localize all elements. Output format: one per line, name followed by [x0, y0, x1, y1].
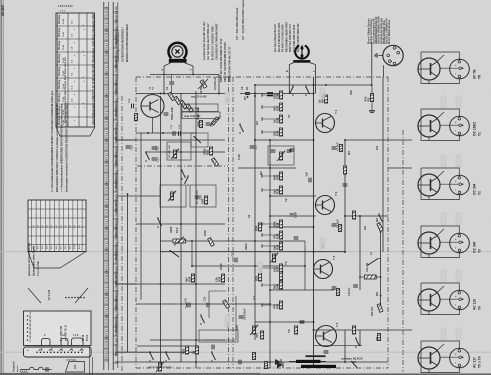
capacitor C25: [300, 321, 305, 323]
pinout U1 transistor symbol: [418, 58, 440, 80]
speaker LS1 terminal wires: [164, 63, 171, 66]
wire horizontal y168: [238, 167, 296, 169]
resistor R32: [273, 115, 283, 123]
resistor R35: [273, 186, 283, 194]
table A measurement table: [56, 13, 95, 127]
capacitor C34: [207, 303, 209, 308]
schematic dash-dot border bottom: [136, 367, 388, 369]
bias network box: [182, 104, 218, 112]
pinout U5 base view: [450, 290, 470, 310]
contact strip box: [24, 347, 92, 357]
left stub y140: [118, 139, 136, 141]
wire vertical x360: [359, 216, 361, 290]
dot row in bracket: [65, 297, 67, 299]
dash-dot rail x122: [121, 96, 123, 372]
switch K6a: [305, 85, 309, 96]
wire box bottom-left: [209, 290, 226, 292]
capacitor C47: [353, 285, 358, 287]
resistor R24: [254, 223, 261, 231]
pinout U5 stamp marks: [441, 270, 446, 282]
resistor R34: [273, 172, 283, 180]
capacitor C29: [332, 287, 337, 289]
inner dash-dot rail pair: [228, 77, 230, 368]
record head arrow: [301, 47, 303, 58]
pinout U6 wiring loop: [421, 341, 460, 373]
pinout U6 base view: [450, 348, 470, 368]
resistor R36: [273, 220, 283, 228]
battery bar mid: [306, 355, 326, 357]
capacitor C14: [179, 131, 181, 136]
DIN socket stub cap: [379, 54, 383, 56]
wire horizontal y140: [115, 139, 225, 141]
pinout U5 transistor symbol: [418, 289, 440, 311]
resistor R30: [273, 91, 283, 99]
box right of upper: [191, 133, 208, 147]
capacitor C30: [239, 360, 241, 365]
resistor R46: [352, 211, 355, 219]
capacitor C70: [46, 367, 48, 372]
resistor R10b: [211, 117, 219, 125]
battery B1 plate long: [296, 360, 321, 363]
capacitor C45: [245, 93, 250, 95]
resistor R61 horizontal: [364, 275, 376, 279]
fold line 2: [0, 351, 491, 353]
left stub y352: [118, 351, 136, 353]
resistor R60: [264, 362, 267, 369]
capacitor C44 dark: [267, 93, 273, 96]
wire horizontal y216: [270, 215, 316, 217]
bias network box 2: [182, 112, 220, 119]
wire horizontal y196: [270, 195, 316, 197]
bump G2: [61, 339, 68, 346]
wire horizontal y284: [115, 283, 225, 285]
resistor R38: [273, 242, 283, 250]
resistor R6: [174, 96, 181, 104]
pinout U4 transistor symbol: [418, 232, 440, 254]
switch K5a: [181, 169, 185, 180]
Gerausch ground: [20, 369, 28, 371]
wire main bus x313: [313, 77, 315, 368]
table A bracket: [56, 127, 95, 136]
capacitor C43: [332, 147, 337, 149]
wire x127.5 lower: [127, 194, 129, 352]
pinout U3 stamp marks: [441, 155, 446, 167]
wire y133: [136, 132, 196, 134]
switch K5b: [185, 175, 189, 186]
wire horizontal y330: [314, 329, 413, 331]
wire y74.4 speaker rail: [150, 73, 219, 75]
feedback box upper: [167, 142, 191, 160]
switch S3: [211, 351, 215, 362]
box left entry column: [27, 315, 28, 316]
vertical separators right of trapezoid: [89, 345, 91, 375]
wire vertical x345: [344, 140, 346, 252]
wire horizontal y322: [255, 321, 314, 323]
diode D1: [275, 359, 281, 365]
bump G1: [42, 339, 51, 346]
potentiometer P4: [158, 363, 161, 371]
resistor R62: [377, 304, 383, 313]
wire vertical x383: [382, 77, 384, 252]
potentiometer P5 wiper: [279, 152, 282, 160]
capacitor C5: [206, 123, 211, 125]
dash-dot rail x403: [402, 130, 404, 372]
resistor R33: [273, 128, 283, 136]
resistor R20: [215, 274, 225, 282]
switch K9: [355, 337, 359, 348]
transistor T3: [314, 260, 333, 279]
wire horizontal y224: [136, 223, 225, 225]
pinout U2 transistor symbol: [418, 115, 440, 137]
speaker LS1 magnet arc: [169, 43, 187, 59]
Gerausch circuit humps: [28, 367, 52, 369]
wire x305 segment: [304, 241, 306, 290]
junction dots: [160, 93, 162, 95]
resistor R40: [279, 272, 282, 280]
DIN wire to frame: [383, 65, 385, 77]
potentiometer P3: [252, 326, 255, 334]
record switch box: [199, 330, 238, 342]
wire vertical x181: [180, 93, 182, 362]
pinout U6 transistor symbol: [418, 347, 440, 369]
switch S1: [149, 351, 153, 362]
feedback box lower: [160, 185, 186, 207]
dash-dot y166 left: [137, 165, 228, 167]
resistor R41: [273, 281, 283, 289]
capacitor C22: [290, 214, 295, 216]
switch K2b on fold: [169, 250, 179, 257]
resistor R42: [273, 301, 283, 309]
resistor R50: [343, 166, 346, 174]
wire horizontal y340: [150, 339, 225, 341]
pinout U2 wiring loop: [421, 109, 460, 141]
potentiometer P6: [211, 158, 218, 166]
switch K6b: [290, 85, 294, 96]
resistor R5: [168, 92, 175, 100]
switch S2: [165, 351, 169, 362]
resistor R23: [208, 238, 215, 247]
wire vertical x371 from DIN: [371, 42, 373, 85]
resistor R58: [191, 346, 198, 354]
left stub y284: [118, 283, 136, 285]
switch K8 right: [367, 259, 380, 266]
DIN socket pins: [393, 47, 396, 50]
potentiometer P0: [173, 150, 176, 158]
wire vertical x255: [254, 85, 256, 340]
wire x380.6 segment: [380, 232, 382, 310]
transistor T2: [316, 196, 335, 215]
pinout U3 transistor symbol: [418, 174, 440, 196]
switch K10: [200, 314, 204, 325]
switch K1a: [145, 151, 149, 162]
trapezoid 102: [66, 362, 85, 373]
pinout U1 base view: [450, 59, 470, 79]
resistor R13: [339, 145, 342, 152]
battery wires: [289, 360, 296, 362]
left stub y196: [118, 195, 136, 197]
tone network box right: [268, 146, 294, 165]
battery B1 plate short: [301, 365, 336, 368]
resistor R31: [273, 103, 283, 111]
contact strip dots: [36, 351, 38, 353]
stamp marks: [320, 88, 325, 99]
wire vertical x270: [269, 140, 271, 368]
resistor R37: [273, 231, 283, 239]
capacitor C33: [188, 303, 190, 308]
dash-dot stub top left: [115, 139, 136, 141]
pinout U3 wiring loop: [421, 168, 460, 200]
schematic dash-dot border top: [136, 76, 388, 78]
record head TK magnet ring: [295, 46, 309, 59]
pinout U6 stamp marks: [441, 328, 446, 340]
scan bottom edge: [0, 373, 491, 375]
potentiometer R21 horizontal: [173, 237, 186, 246]
capacitor C3: [164, 113, 169, 115]
pinout U4 stamp marks: [441, 213, 446, 225]
capacitor C24: [309, 178, 311, 183]
table C taper: [28, 252, 86, 269]
switch K1b: [157, 217, 161, 228]
fold line 1: [0, 251, 491, 253]
record head bar: [293, 60, 310, 63]
capacitor C23: [294, 237, 299, 239]
switch K11: [239, 123, 243, 134]
diode D2 bottom: [277, 362, 283, 368]
switch K4 in box: [193, 136, 201, 143]
switch K7: [378, 213, 382, 224]
transistor T4: [316, 326, 337, 347]
wire x141: [140, 133, 142, 300]
transistor T7: [141, 95, 164, 118]
capacitor C41: [271, 150, 276, 152]
wire horizontal y227: [270, 226, 314, 228]
resistor R56: [223, 300, 230, 309]
schematic dash-dot border right: [387, 77, 389, 368]
capacitor C1: [132, 104, 134, 109]
schematic dash-dot border left: [135, 77, 137, 368]
callout bracket under table C: [28, 288, 41, 303]
resistor R7: [180, 100, 187, 108]
capacitor C28: [332, 224, 337, 226]
speaker LS1 magnet bar: [169, 59, 187, 63]
pinout U3 base view: [450, 175, 470, 195]
wire vertical x196: [195, 91, 197, 368]
pinout U5 wiring loop: [421, 283, 460, 315]
capacitor C15: [126, 146, 131, 148]
resistor R44: [294, 326, 297, 334]
capacitor C17: [235, 258, 237, 263]
speaker LS1 cone ring: [172, 46, 183, 57]
wire y241: [160, 240, 305, 242]
capacitor C2a: [169, 82, 174, 84]
contact strip bridges: [39, 350, 43, 351]
resistor R14: [338, 225, 341, 232]
capacitor C12: [152, 158, 157, 160]
wire horizontal y290: [270, 289, 334, 291]
wire x192 segment: [191, 241, 193, 266]
transistor T1: [316, 114, 335, 133]
pinout U2 stamp marks: [441, 96, 446, 108]
resistor R48: [377, 223, 383, 232]
strip B measurement rail: [103, 2, 105, 370]
capacitor C20: [290, 149, 295, 151]
capacitor C13: [173, 131, 175, 136]
capacitor C11: [152, 147, 157, 149]
resistor R17: [336, 289, 339, 296]
table C voltage table: [28, 200, 86, 252]
pinout U4 base view: [450, 233, 470, 253]
resistor R55: [252, 353, 255, 360]
wire horizontal y346: [137, 345, 199, 347]
resistor R15: [203, 147, 213, 155]
scan noise overlay: [0, 0, 1, 1]
bump G3: [72, 338, 84, 346]
resistor R57: [181, 346, 188, 354]
potentiometer P2: [272, 254, 275, 262]
capacitor C31: [324, 351, 329, 353]
wire horizontal y304: [136, 303, 270, 305]
resistor R7b: [186, 104, 193, 112]
resistor R59: [260, 331, 263, 339]
resistor R9: [199, 121, 202, 128]
wire horizontal y252 segment: [160, 251, 345, 253]
resistor R25: [254, 273, 261, 281]
wire bottom y352 segment: [115, 351, 196, 353]
capacitor C46: [250, 146, 255, 148]
pinout U2 base view: [450, 116, 470, 136]
potentiometer P1: [170, 192, 173, 200]
resistor R63: [377, 334, 380, 341]
wire vertical x160: [160, 96, 162, 362]
resistor stubs from bus: [262, 94, 279, 96]
wire bottom bus y362: [115, 361, 388, 363]
resistor R16a: [200, 196, 207, 204]
capacitor C36: [212, 345, 214, 350]
capacitor C35: [239, 316, 244, 318]
resistor R39: [273, 264, 283, 272]
resistor R2 slant: [200, 80, 207, 89]
wire horizontal y152: [146, 151, 225, 153]
resistor R1: [134, 114, 137, 121]
capacitor C42: [287, 150, 292, 152]
wire top rail: [136, 93, 225, 95]
DIN socket J1 outline: [383, 45, 403, 65]
adjust box (Messpunkte): [24, 311, 92, 346]
wire x219 drop: [218, 74, 220, 93]
record head wires: [289, 63, 293, 65]
wire y345.7: [314, 345, 363, 347]
wire head rail: [255, 84, 372, 86]
resistor R47: [352, 326, 355, 334]
capacitor C27: [343, 184, 348, 186]
resistor R19: [185, 274, 195, 282]
pinout U4 wiring loop: [421, 226, 460, 258]
pinout U1 wiring loop: [421, 52, 460, 84]
capacitor C16a: [195, 196, 200, 198]
resistor R45: [364, 94, 374, 102]
resistor R8: [318, 95, 328, 103]
wire y266: [192, 265, 305, 267]
scan left edge shadow: [0, 0, 4, 375]
switch K12 under battery: [351, 361, 357, 368]
feedback box lower right: [190, 185, 216, 207]
